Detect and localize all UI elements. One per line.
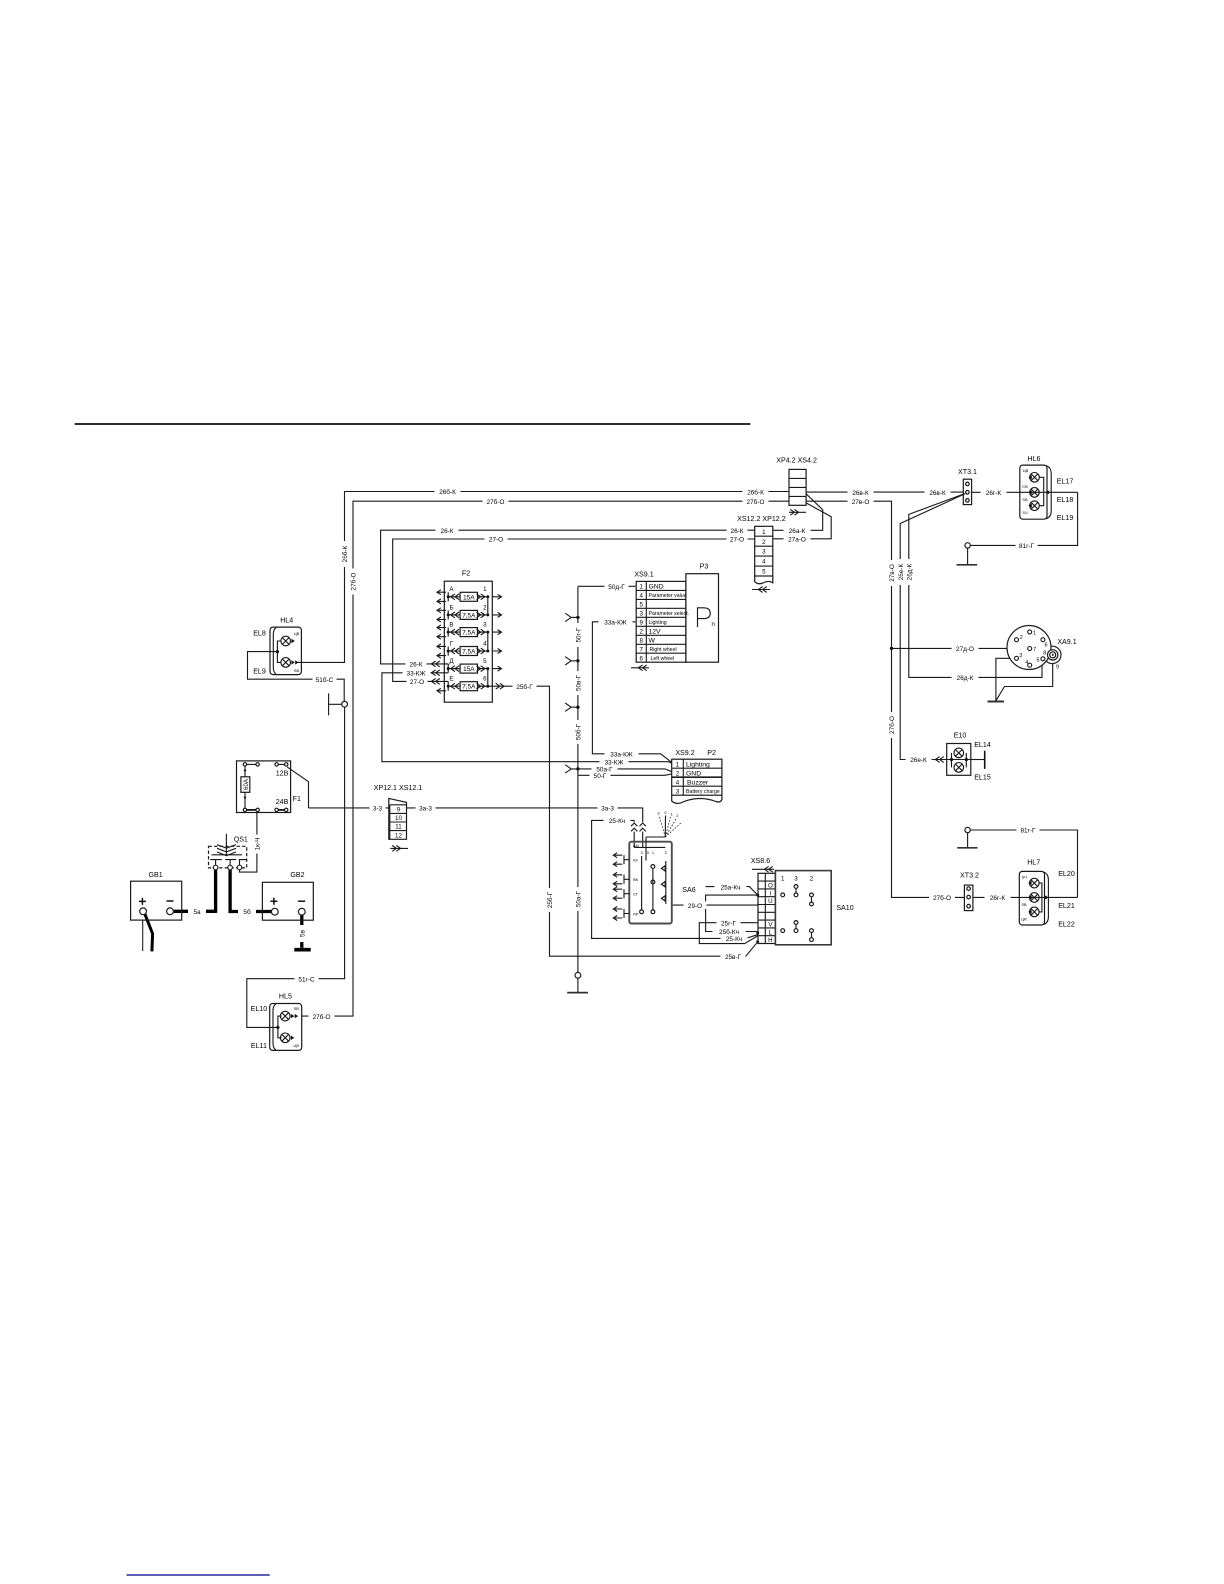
ground bar GB2 (thick) xyxy=(294,948,310,952)
bottom blue link line xyxy=(127,1574,270,1576)
svg-text:26е-К: 26е-К xyxy=(898,563,905,580)
svg-text:26-К: 26-К xyxy=(731,528,744,535)
svg-text:3: 3 xyxy=(641,850,643,855)
svg-text:ЦВ: ЦВ xyxy=(1023,468,1029,473)
svg-text:26е-К: 26е-К xyxy=(910,757,927,764)
svg-text:3: 3 xyxy=(483,622,487,629)
svg-text:ЦВ: ЦВ xyxy=(294,1043,300,1048)
wire 26г-К XT3.2 to HL7 xyxy=(973,896,1028,898)
svg-text:1: 1 xyxy=(483,586,487,593)
svg-text:6: 6 xyxy=(1045,642,1048,648)
svg-text:H: H xyxy=(768,937,772,944)
svg-text:SВ: SВ xyxy=(1021,902,1027,907)
svg-text:9: 9 xyxy=(397,807,401,814)
svg-text:3а-3: 3а-3 xyxy=(601,806,614,813)
svg-text:XT3.1: XT3.1 xyxy=(958,468,977,476)
wire 26в-К XP4.2 to XT3.1 xyxy=(806,491,963,493)
branch fork symbols on 50 bus xyxy=(565,613,577,621)
svg-text:HL7: HL7 xyxy=(1027,858,1040,866)
fuse F2-А 15А xyxy=(437,586,502,604)
wire E10 right terminal bar xyxy=(971,759,985,761)
wire 26е-К XT3.1 to E10 xyxy=(900,494,965,760)
svg-text:Parameter value: Parameter value xyxy=(649,593,687,599)
svg-text:26г-К: 26г-К xyxy=(986,490,1002,497)
svg-text:26б-К: 26б-К xyxy=(747,489,764,497)
svg-text:4: 4 xyxy=(676,779,680,786)
wire 27-О to XS12.2 pin 2 and F2 row Е xyxy=(393,539,755,681)
battery GB2 xyxy=(262,871,313,920)
svg-text:1: 1 xyxy=(671,811,673,816)
connector XS9.2 / device P2 xyxy=(672,749,722,803)
svg-text:25б-Г: 25б-Г xyxy=(546,891,554,908)
fuse F1 60А xyxy=(237,761,301,813)
svg-text:27-О: 27-О xyxy=(410,679,424,686)
svg-text:1: 1 xyxy=(762,529,766,536)
connector XP12.1 XS12.1 xyxy=(374,784,423,851)
svg-text:26-К: 26-К xyxy=(441,528,454,535)
wire 5в GB2 to ground (thick) xyxy=(300,915,303,948)
svg-text:51б-С: 51б-С xyxy=(316,676,334,684)
svg-text:3: 3 xyxy=(1019,653,1022,659)
svg-text:26в-К: 26в-К xyxy=(852,490,869,497)
svg-text:12: 12 xyxy=(395,832,402,839)
svg-text:СВ: СВ xyxy=(1022,484,1028,489)
svg-text:P3: P3 xyxy=(700,562,709,570)
svg-text:3-3: 3-3 xyxy=(373,806,383,813)
battery switch QS1 xyxy=(209,834,248,870)
svg-text:2: 2 xyxy=(810,875,814,882)
svg-text:10: 10 xyxy=(395,815,402,822)
svg-text:Right wheel: Right wheel xyxy=(650,647,677,653)
svg-text:27в-О: 27в-О xyxy=(889,564,896,582)
svg-text:27б-О: 27б-О xyxy=(888,716,896,734)
svg-text:XS9.1: XS9.1 xyxy=(634,571,653,579)
svg-text:27а-О: 27а-О xyxy=(788,537,806,544)
svg-text:5: 5 xyxy=(483,658,487,665)
svg-text:33-КЖ: 33-КЖ xyxy=(407,671,426,678)
svg-text:HL4: HL4 xyxy=(280,617,293,625)
wire 5а GB1 to QS1 (thick) xyxy=(173,910,215,913)
svg-text:8: 8 xyxy=(639,637,643,644)
F2 bus pins 3-4 xyxy=(487,632,489,651)
svg-text:EL21: EL21 xyxy=(1058,902,1075,910)
lamp unit HL6 (EL17 EL18 EL19) xyxy=(1020,455,1074,522)
svg-text:1: 1 xyxy=(676,761,680,768)
svg-text:5в: 5в xyxy=(299,929,306,937)
wire 27б-О HL5 to XP4.2 xyxy=(302,501,789,1016)
svg-text:F2: F2 xyxy=(462,569,470,577)
switch SA10 xyxy=(775,871,853,945)
wire 25-Кч to SA6 and XS8.6 xyxy=(592,820,758,938)
svg-text:12В: 12В xyxy=(276,770,289,778)
lamp unit HL4 (EL8 EL9) xyxy=(253,617,301,676)
svg-text:GND: GND xyxy=(649,584,664,591)
fuse F2-В 7,5А xyxy=(437,622,502,640)
svg-text:9: 9 xyxy=(639,619,643,626)
svg-text:SA10: SA10 xyxy=(836,904,853,912)
svg-text:1: 1 xyxy=(1033,631,1036,637)
svg-text:2: 2 xyxy=(1020,635,1023,641)
svg-text:33а-КЖ: 33а-КЖ xyxy=(610,752,633,759)
connector XA9.1 (round) xyxy=(1007,626,1077,671)
wire HL7 to 81г-Г net xyxy=(1039,896,1077,898)
svg-text:XA9.1: XA9.1 xyxy=(1057,638,1076,646)
svg-text:4: 4 xyxy=(639,593,643,600)
svg-text:EL19: EL19 xyxy=(1057,514,1074,522)
fuse F2-Е 7,5А xyxy=(437,676,489,694)
svg-text:КЗ: КЗ xyxy=(633,858,638,863)
svg-text:EL10: EL10 xyxy=(251,1005,268,1013)
svg-text:W: W xyxy=(649,638,656,645)
svg-text:2: 2 xyxy=(676,770,680,777)
wire 25г-Г bracket to XS8.6 xyxy=(699,923,757,944)
ground at 50 bus bottom xyxy=(575,972,581,978)
svg-text:SВ: SВ xyxy=(294,668,300,673)
svg-text:2: 2 xyxy=(676,813,678,818)
svg-text:QS1: QS1 xyxy=(234,835,248,843)
svg-text:27б-О: 27б-О xyxy=(313,1013,331,1021)
svg-text:EL14: EL14 xyxy=(974,741,991,749)
svg-text:81г-Г: 81г-Г xyxy=(1019,543,1035,550)
svg-text:5б: 5б xyxy=(243,908,251,916)
svg-text:15А: 15А xyxy=(463,666,475,673)
wire 50-Г to XS9.2 pin 2 xyxy=(578,774,672,775)
wire 51г-С to HL5 xyxy=(247,707,345,1027)
ground bar XA9.1 xyxy=(988,701,1005,703)
svg-text:EL18: EL18 xyxy=(1057,496,1074,504)
wire XA9.1 pin 9 to ground xyxy=(996,660,1053,701)
svg-text:7,5А: 7,5А xyxy=(462,630,476,637)
wire 50а-Г bus to XS9.2 pin 2 xyxy=(578,769,672,772)
svg-text:51г-С: 51г-С xyxy=(298,976,315,983)
svg-text:6: 6 xyxy=(483,676,487,683)
svg-text:25-Кч: 25-Кч xyxy=(609,818,625,825)
wire F1 to 3-3 (diagonal) xyxy=(287,767,308,808)
svg-text:ПР: ПР xyxy=(633,911,639,916)
svg-text:50б-Г: 50б-Г xyxy=(575,723,583,740)
svg-text:5: 5 xyxy=(762,569,766,576)
svg-text:27д-О: 27д-О xyxy=(956,646,974,653)
svg-text:25б-Кч: 25б-Кч xyxy=(719,928,739,936)
svg-text:SЧ: SЧ xyxy=(1022,874,1028,879)
svg-text:2: 2 xyxy=(665,850,667,855)
svg-text:25г-Г: 25г-Г xyxy=(721,920,737,927)
fuse box F2 xyxy=(444,569,492,702)
svg-text:50д-Г: 50д-Г xyxy=(608,584,625,591)
chassis T-bar xyxy=(329,693,342,715)
svg-text:ЦR: ЦR xyxy=(1021,917,1027,922)
battery GB1 xyxy=(131,871,182,920)
wire 81г-Г ground to HL6 xyxy=(970,492,1077,545)
wire 27д-О to XA9.1 pin 7 xyxy=(892,647,1028,649)
svg-text:SВ: SВ xyxy=(294,1006,300,1011)
svg-text:3: 3 xyxy=(762,549,766,556)
svg-text:SЧ: SЧ xyxy=(1022,510,1028,515)
wire XA9.1 pin 3 to ground xyxy=(996,658,1014,701)
terminal XT3.2 xyxy=(960,872,979,911)
lamp unit HL7 (EL20 EL21 EL22) xyxy=(1019,858,1075,928)
svg-text:P2: P2 xyxy=(707,749,716,757)
svg-text:U: U xyxy=(768,898,772,905)
svg-text:HL6: HL6 xyxy=(1027,455,1040,463)
svg-text:27-О: 27-О xyxy=(489,537,503,544)
wire 1к-Ч QS1 to F1 xyxy=(240,812,257,872)
wire 25а-Кч stub to XS8.6 row I xyxy=(706,887,758,896)
connector XS12.2 XP12.2 xyxy=(737,515,786,592)
ground circle symbol HL6 xyxy=(965,543,970,548)
svg-text:Left wheel: Left wheel xyxy=(651,656,675,662)
svg-text:24В: 24В xyxy=(276,798,289,806)
wire 81г-Г ground to HL7 xyxy=(970,830,1077,897)
svg-text:L: L xyxy=(769,929,773,936)
terminal XT3.1 xyxy=(958,468,977,505)
wire 29-О stub to XS8.6 row U xyxy=(673,904,758,906)
svg-text:27-О: 27-О xyxy=(730,537,744,544)
svg-text:27в-О: 27в-О xyxy=(852,499,870,506)
svg-text:GB1: GB1 xyxy=(148,871,162,879)
svg-text:2: 2 xyxy=(639,628,643,635)
svg-text:33а-КЖ: 33а-КЖ xyxy=(604,620,627,627)
svg-text:5а: 5а xyxy=(193,909,201,916)
wire 27в-О XP4.2 down to XT3.2 xyxy=(806,501,964,897)
wire HL6 to 81г-Г net xyxy=(1039,491,1077,493)
svg-text:25а-Кч: 25а-Кч xyxy=(721,884,741,891)
connector XP4.2 XS4.2 xyxy=(776,456,817,515)
svg-text:26д-К: 26д-К xyxy=(957,675,974,682)
svg-text:25-Кч: 25-Кч xyxy=(726,936,742,943)
ground circle symbol HL7 xyxy=(965,827,970,832)
svg-text:3: 3 xyxy=(794,875,798,882)
wire 26-К to XS12.2 pin 1 and F2 row Д xyxy=(381,530,755,664)
wire 3-3 F1 to XP12.1 pin 9 xyxy=(309,807,389,809)
F2 bus pins 1-2 xyxy=(487,597,489,615)
svg-text:50в-Г: 50в-Г xyxy=(576,674,583,691)
wire 51б-С HL4 common to chassis point xyxy=(248,652,345,702)
svg-text:7,5А: 7,5А xyxy=(462,649,476,656)
svg-text:XS8.6: XS8.6 xyxy=(751,857,770,865)
svg-text:EL22: EL22 xyxy=(1058,921,1075,929)
wire 5б QS1 to GB2 (thick) xyxy=(230,870,272,912)
svg-text:O: O xyxy=(768,883,773,890)
svg-text:EL8: EL8 xyxy=(253,629,266,637)
svg-text:Battery charge: Battery charge xyxy=(686,789,720,795)
svg-text:26б-К: 26б-К xyxy=(341,545,349,562)
svg-text:Е: Е xyxy=(449,676,453,683)
svg-text:29-О: 29-О xyxy=(688,903,702,910)
svg-text:ЦВ: ЦВ xyxy=(294,631,300,636)
wire 26г-К XT3.1 to HL6 xyxy=(972,491,1028,493)
svg-text:XP12.1 XS12.1: XP12.1 XS12.1 xyxy=(374,784,423,792)
svg-text:2: 2 xyxy=(483,604,487,611)
svg-text:26г-К: 26г-К xyxy=(990,895,1006,902)
wire 26б-К HL4 to XP4.2 xyxy=(298,492,789,663)
fuse F2-Б 7,5А xyxy=(437,604,502,622)
ignition switch SA6 xyxy=(613,810,695,924)
wire 25б-Г F2 pin 6 down to XS8.6 row H (25в-Г) xyxy=(488,686,758,956)
svg-text:50г-Г: 50г-Г xyxy=(576,627,583,643)
wire 3а-3 XP12.1 to SA6 xyxy=(407,808,643,822)
svg-text:EL11: EL11 xyxy=(251,1042,267,1050)
svg-text:Buzzer: Buzzer xyxy=(687,779,709,786)
svg-text:1: 1 xyxy=(652,850,654,855)
svg-text:8: 8 xyxy=(1043,651,1046,657)
svg-text:2: 2 xyxy=(762,539,766,546)
svg-text:1: 1 xyxy=(639,584,643,591)
connector XS8.6 xyxy=(751,857,776,944)
svg-text:SВ: SВ xyxy=(1022,497,1028,502)
svg-text:27б-О: 27б-О xyxy=(933,894,951,902)
svg-text:F1: F1 xyxy=(293,795,301,803)
wire jumper 25б-Кч XS8.6 row I to row L xyxy=(706,895,758,931)
device P3 (speed monitor) xyxy=(686,562,719,662)
svg-text:9: 9 xyxy=(1056,665,1059,671)
svg-text:26а-К: 26а-К xyxy=(789,528,806,535)
svg-text:27б-О: 27б-О xyxy=(487,498,505,506)
svg-text:XT3.2: XT3.2 xyxy=(960,872,979,880)
svg-text:GB2: GB2 xyxy=(290,871,304,879)
GB1 ground straps xyxy=(142,920,144,951)
svg-text:50-Г: 50-Г xyxy=(594,773,607,780)
svg-text:26б-К: 26б-К xyxy=(439,488,456,496)
svg-text:XS12.2 XP12.2: XS12.2 XP12.2 xyxy=(737,515,786,523)
svg-text:6: 6 xyxy=(639,655,643,662)
svg-text:4: 4 xyxy=(762,559,766,566)
lamp unit HL5 (EL10 EL11) xyxy=(251,992,302,1050)
svg-text:Lighting: Lighting xyxy=(649,620,667,626)
svg-text:25б-Г: 25б-Г xyxy=(516,683,533,691)
svg-text:3а-3: 3а-3 xyxy=(419,806,432,813)
svg-text:1: 1 xyxy=(781,875,785,882)
lamp unit E10 (EL14 EL15) xyxy=(947,731,991,781)
svg-text:SA6: SA6 xyxy=(682,886,695,894)
svg-text:27б-О: 27б-О xyxy=(350,573,358,591)
wire 33а-КЖ XS9.1 pin 9 to XS9.2 pin 1 xyxy=(592,622,671,763)
svg-text:EL20: EL20 xyxy=(1058,870,1075,878)
wire 50 bus vertical xyxy=(577,587,579,973)
svg-text:1к-Ч: 1к-Ч xyxy=(255,838,262,851)
svg-text:25в-Г: 25в-Г xyxy=(725,954,742,961)
svg-text:7,5А: 7,5А xyxy=(462,612,476,619)
svg-text:GND: GND xyxy=(686,770,701,777)
svg-text:4: 4 xyxy=(1025,660,1028,666)
svg-text:5: 5 xyxy=(1037,657,1040,663)
svg-text:3: 3 xyxy=(657,811,659,816)
svg-text:60А: 60А xyxy=(243,778,250,790)
svg-text:ВК: ВК xyxy=(633,877,639,882)
wire 50д-Г bus to XS9.1 pin 1 xyxy=(578,585,636,587)
svg-text:EL9: EL9 xyxy=(253,667,266,675)
svg-text:Parameter select.: Parameter select. xyxy=(649,611,690,617)
svg-text:3: 3 xyxy=(676,788,680,795)
svg-text:3: 3 xyxy=(639,610,643,617)
svg-text:HL5: HL5 xyxy=(279,992,292,1000)
svg-text:XS9.2: XS9.2 xyxy=(675,749,694,757)
svg-text:В: В xyxy=(449,622,453,629)
svg-text:7,5А: 7,5А xyxy=(462,684,476,691)
svg-text:n: n xyxy=(712,622,715,628)
svg-text:7: 7 xyxy=(639,646,643,653)
wire 26д-К XT3.1 to XA9.1 pin 5 xyxy=(909,494,1042,678)
fuse F2-Г 7,5А xyxy=(437,640,502,658)
wire 27а-О XS12.2 to XP4.2 xyxy=(773,503,831,539)
svg-text:81г-Г: 81г-Г xyxy=(1020,828,1036,835)
wire 33-КЖ F2 row Д to XS9.2 pin 1 xyxy=(382,673,672,764)
svg-text:5: 5 xyxy=(639,601,643,608)
svg-text:15А: 15А xyxy=(463,594,475,601)
svg-text:26в-К: 26в-К xyxy=(929,490,946,497)
svg-text:12V: 12V xyxy=(649,629,662,636)
F2 bus pins 5-6 xyxy=(487,669,489,687)
svg-text:СТ: СТ xyxy=(633,892,639,897)
svg-text:EL17: EL17 xyxy=(1057,478,1074,486)
svg-text:26д-К: 26д-К xyxy=(906,563,913,580)
svg-text:26-К: 26-К xyxy=(410,662,423,669)
svg-text:Lighting: Lighting xyxy=(686,761,710,768)
svg-text:XP4.2 XS4.2: XP4.2 XS4.2 xyxy=(776,456,817,464)
svg-text:7: 7 xyxy=(1033,647,1036,653)
svg-text:50а-Г: 50а-Г xyxy=(576,890,583,907)
svg-text:4: 4 xyxy=(483,640,487,647)
chassis circle junction xyxy=(342,701,348,707)
connector XS9.1 xyxy=(631,571,689,671)
svg-text:E10: E10 xyxy=(954,731,967,739)
wire 26а-К XS12.2 to XP4.2 xyxy=(773,494,823,531)
svg-text:11: 11 xyxy=(395,824,402,831)
svg-text:EL15: EL15 xyxy=(974,774,991,782)
svg-text:27б-О: 27б-О xyxy=(747,498,765,506)
svg-text:I: I xyxy=(770,890,772,897)
fuse F2-Д 15А xyxy=(447,658,502,673)
svg-text:Б: Б xyxy=(449,604,453,611)
junction dots XS8.6 xyxy=(756,894,759,897)
top horizontal rule xyxy=(75,423,751,425)
